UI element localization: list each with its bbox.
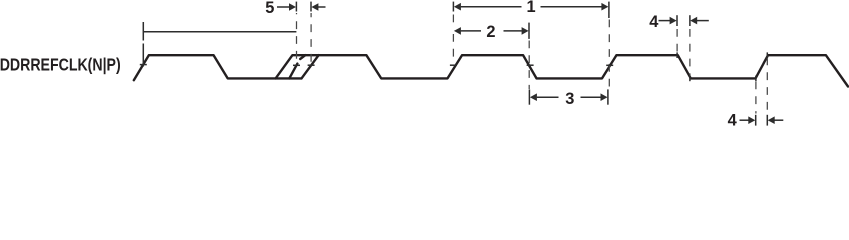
dimension 3 right arrow (581, 96, 601, 98)
dashed extension line at falling edge midpoint (528, 41, 530, 90)
dimension 3 right end bar (607, 89, 609, 104)
dashed extension line at fall start corner (676, 28, 678, 52)
dimension 5 left arrow (277, 6, 290, 8)
dimension 3 left end bar (528, 89, 530, 104)
tick crossing on jitter edge 2 (293, 64, 300, 66)
dimension 3 left arrow (530, 93, 537, 101)
wire waveform trace from first jitter edge onward (276, 55, 848, 86)
dimension 2 left arrow (454, 27, 461, 35)
tick crossing on first rising edge (140, 64, 147, 66)
svg-text:1: 1 (527, 0, 536, 16)
dimension 4 rise left arrow (740, 119, 749, 121)
dimension 4 right arrow (697, 20, 709, 22)
wire waveform main trace (134, 55, 302, 80)
dashed extension line at rising edge midpoint (452, 15, 454, 27)
tick crossing at fall start corner (676, 52, 678, 58)
dashed extension line at nominal edge (296, 13, 298, 63)
dimension 4 left arrow (659, 20, 671, 22)
svg-text:5: 5 (265, 0, 274, 17)
dimension 1 right arrow (541, 6, 602, 8)
tick crossing on falling edge (527, 64, 534, 66)
node reference line from first edge to nominal next edge (142, 22, 144, 41)
dashed extension line at period-end rising edge midpoint (608, 20, 610, 90)
dashed extension line at rise start corner (755, 82, 757, 114)
dashed extension line at rise end corner (766, 58, 768, 114)
tick crossing on rising edge (450, 64, 457, 66)
dimension 1 right end bar (608, 2, 610, 18)
tick crossing at rise start corner (755, 76, 757, 82)
svg-text:4: 4 (728, 112, 738, 128)
dimension 5 right arrow (318, 6, 326, 8)
wire jitter edge 2 (nominal) (289, 55, 305, 78)
svg-text:2: 2 (486, 23, 495, 41)
dimension 4 rise right arrow (774, 119, 783, 121)
tick crossing at rise end corner (766, 52, 768, 58)
dashed extension line at late edge (310, 13, 312, 63)
tick crossing at fall end corner (689, 76, 691, 82)
wire jitter edge 3 (late bound) (302, 55, 319, 78)
tick crossing on jitter edge 3 (308, 64, 315, 66)
dimension 2 right end bar (528, 23, 530, 39)
tick crossing on period-end rising edge (606, 64, 613, 66)
dimension 1 left arrow (454, 3, 461, 11)
svg-text:4: 4 (649, 13, 659, 31)
svg-text:DDRREFCLK(N|P): DDRREFCLK(N|P) (0, 55, 121, 75)
dimension 1 left end bar (452, 2, 454, 12)
dimension 2 right arrow (504, 30, 522, 32)
svg-text:3: 3 (565, 90, 574, 108)
dashed extension line at fall end corner (689, 28, 691, 76)
